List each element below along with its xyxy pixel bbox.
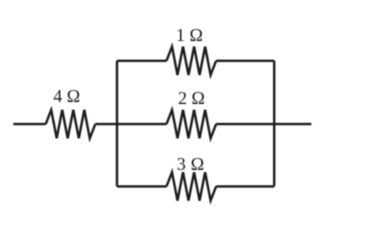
wire: bottom branch right <box>216 185 274 187</box>
wire: top branch left <box>117 60 167 62</box>
wire: 4Ω to left node <box>95 123 117 125</box>
wire: left node to 2Ω <box>117 123 167 125</box>
svg-text:4 Ω: 4 Ω <box>53 86 80 106</box>
wire: right rail (vertical) <box>273 61 275 187</box>
svg-text:Ω: Ω <box>191 154 204 174</box>
wire: bottom branch left <box>117 185 167 187</box>
wire: right output lead <box>274 123 311 125</box>
svg-text:3: 3 <box>177 154 186 174</box>
resistor 2Ω (middle branch) <box>167 110 217 138</box>
resistor 1Ω (top branch) <box>167 47 217 75</box>
wire: left rail (vertical) <box>116 61 118 187</box>
resistor 4Ω (series) <box>46 110 96 138</box>
wire: 2Ω to right node <box>216 123 274 125</box>
resistor 3Ω (bottom branch) <box>167 172 217 200</box>
svg-text:2 Ω: 2 Ω <box>178 88 205 108</box>
svg-text:1 Ω: 1 Ω <box>176 25 203 45</box>
wire: left input lead <box>13 123 45 125</box>
wire: top branch right <box>216 60 274 62</box>
